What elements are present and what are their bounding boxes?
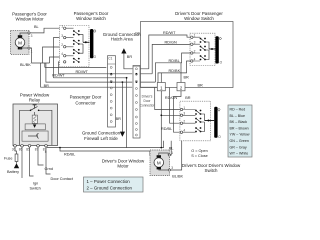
svg-text:BR: BR <box>184 76 190 80</box>
svg-text:Window Switch: Window Switch <box>76 16 106 21</box>
svg-text:Switch: Switch <box>205 168 218 173</box>
wire door contact <box>46 147 74 181</box>
svg-text:BR – Brown: BR – Brown <box>230 126 249 130</box>
svg-text:1: 1 <box>171 151 173 155</box>
junction dots at connector strips <box>110 73 137 83</box>
svg-text:BL – Blue: BL – Blue <box>230 114 245 118</box>
svg-text:Battery: Battery <box>7 170 19 174</box>
svg-text:WT – White: WT – White <box>230 152 249 156</box>
motor M2 driver's door window motor <box>150 150 173 176</box>
fuse F1 <box>4 147 18 163</box>
wire band row2 <box>58 73 132 75</box>
legend wire colors <box>228 105 252 157</box>
svg-text:YW – Yellow: YW – Yellow <box>230 133 250 137</box>
label driver's door window motor <box>102 158 145 168</box>
wire band row1 BL/BK to connector J1 <box>45 66 107 68</box>
relay K1 power window relay <box>13 93 58 146</box>
svg-text:1: 1 <box>61 24 63 28</box>
svg-text:C1: C1 <box>108 57 112 61</box>
driver's door passenger window switch S2 <box>190 33 215 65</box>
svg-text:RD/BL: RD/BL <box>64 153 75 157</box>
svg-text:Relay: Relay <box>29 98 41 103</box>
wire rows right of J2 to enclosure verticals <box>140 69 158 87</box>
svg-text:M: M <box>157 160 161 165</box>
svg-text:Motor: Motor <box>117 163 129 168</box>
svg-text:Passenger Door: Passenger Door <box>70 95 102 100</box>
svg-text:3: 3 <box>171 166 173 170</box>
svg-text:S = Close: S = Close <box>191 154 208 158</box>
svg-text:RD – Red: RD – Red <box>230 108 246 112</box>
svg-text:Fuse: Fuse <box>4 157 12 161</box>
wire motor bottom jogs <box>30 47 64 63</box>
wire T2 branch lower switch <box>160 114 179 116</box>
long wire B to driver motor <box>60 148 150 156</box>
title passenger's door window switch <box>74 11 109 21</box>
svg-text:Driver's: Driver's <box>142 95 153 99</box>
svg-text:RD/BL: RD/BL <box>169 59 180 63</box>
wire step RD/WT to T1 <box>149 35 191 69</box>
switch S3 contacts <box>183 110 215 133</box>
wire motor M1 brushes <box>20 33 28 49</box>
svg-text:BR: BR <box>198 83 204 87</box>
svg-text:Switch: Switch <box>30 187 41 191</box>
wire BL/BK motor M2 to switch <box>170 141 183 179</box>
wire band row3 <box>53 77 126 79</box>
wire motor M2 brushes <box>159 153 168 170</box>
wire passenger switch terminal 2 <box>45 38 64 78</box>
svg-text:RD/WT: RD/WT <box>76 70 89 74</box>
wire from box1 down to lower switch and relay feed <box>160 91 162 148</box>
svg-text:Door: Door <box>144 99 152 103</box>
switch S2 actuator bar <box>215 36 222 64</box>
svg-text:GN – Green: GN – Green <box>230 139 249 143</box>
svg-text:2 – Ground Connection: 2 – Ground Connection <box>87 186 133 191</box>
svg-text:3: 3 <box>61 34 63 38</box>
svg-text:3: 3 <box>31 34 33 38</box>
wire step RD/BK to T4 <box>158 61 191 87</box>
svg-text:2: 2 <box>61 43 63 47</box>
long wire A relay to driver switch <box>47 141 164 148</box>
svg-text:RD/WT: RD/WT <box>163 31 176 35</box>
wire band row4 <box>46 63 132 82</box>
svg-text:Ign: Ign <box>33 182 38 186</box>
title driver's door passenger window switch <box>175 11 223 21</box>
svg-text:Door Contact: Door Contact <box>51 177 74 181</box>
label driver's door connector <box>140 95 156 108</box>
svg-text:M: M <box>18 40 22 45</box>
motor M1 passenger's door window motor <box>11 30 33 54</box>
svg-text:1 – Power Connection: 1 – Power Connection <box>87 179 131 184</box>
svg-text:RD/BL: RD/BL <box>161 127 172 131</box>
wire band row5 <box>41 63 133 87</box>
svg-text:O = Open: O = Open <box>191 149 208 153</box>
enclosure driver's door switch assembly <box>141 22 234 88</box>
label O=Open S=Close <box>191 149 208 158</box>
relay K1 internals <box>20 105 52 145</box>
svg-text:Window Motor: Window Motor <box>15 17 44 22</box>
svg-text:BR: BR <box>185 96 191 100</box>
svg-text:BL/BK: BL/BK <box>20 63 31 67</box>
svg-text:RD/WT: RD/WT <box>52 74 65 78</box>
wire lower T3 <box>170 88 180 124</box>
switch S3 actuator bar <box>214 107 221 139</box>
wire step RD/GN to T2 <box>152 44 190 73</box>
svg-text:RD/GN: RD/GN <box>165 41 177 45</box>
ground connection marker box 2 <box>177 63 189 91</box>
driver's door driver's window switch S3 <box>180 101 211 141</box>
label ground connection firewall left side <box>82 130 121 141</box>
svg-text:Ground Connection: Ground Connection <box>82 130 121 135</box>
label passenger door connector <box>70 95 102 106</box>
svg-text:Hatch Area: Hatch Area <box>111 36 133 41</box>
junction wire B branch <box>59 147 61 149</box>
wire step RD/BL to T3 <box>155 53 190 82</box>
wire vertical to lower long wire <box>126 77 128 148</box>
svg-text:BK – Black: BK – Black <box>230 120 248 124</box>
label driver's door driver's window switch <box>182 163 241 173</box>
svg-text:BR: BR <box>44 84 50 88</box>
switch S2 contacts <box>193 37 215 61</box>
passenger switch S1 actuator bar <box>90 29 97 59</box>
svg-text:Connector: Connector <box>140 104 156 108</box>
battery feed arrow <box>7 163 19 174</box>
wire ign switch <box>22 147 41 190</box>
title passenger's door window motor <box>12 12 47 22</box>
svg-text:GR – Gray: GR – Gray <box>230 145 247 149</box>
svg-text:RD/BK: RD/BK <box>169 69 181 73</box>
svg-text:Firewall Left Side: Firewall Left Side <box>84 136 118 141</box>
wire from box2 down to lower switch T4 <box>174 91 182 132</box>
wire BL switch to motor M2 <box>169 141 174 155</box>
wire grnd <box>38 147 53 171</box>
svg-text:BL: BL <box>169 146 174 150</box>
label ground connection hatch area <box>103 32 142 41</box>
svg-text:BR: BR <box>127 55 133 59</box>
svg-text:GN: GN <box>135 31 140 35</box>
legend connection markers <box>84 177 144 192</box>
wire lower T1 from enclosure <box>155 88 180 110</box>
svg-text:BR: BR <box>116 117 122 121</box>
power connection marker box 1 <box>157 73 165 91</box>
passenger's door window switch S1 <box>60 24 90 66</box>
svg-text:BL/BK: BL/BK <box>172 174 183 178</box>
connector J1 passenger door connector strip <box>108 56 116 127</box>
ground G2 firewall arrow <box>116 81 125 137</box>
connector J2 driver's door connector strip <box>133 66 140 139</box>
svg-text:Window Switch: Window Switch <box>184 16 214 21</box>
junction long wire A with feed <box>160 147 162 149</box>
svg-text:4: 4 <box>61 52 63 56</box>
passenger switch S1 contacts <box>66 28 90 63</box>
wire BL motor top to passenger switch terminal 1 <box>30 28 64 33</box>
svg-text:Connector: Connector <box>75 101 96 106</box>
relay K1 pins <box>12 145 48 155</box>
svg-text:BL: BL <box>34 25 39 29</box>
ground G1 hatch area arrow <box>121 48 132 69</box>
